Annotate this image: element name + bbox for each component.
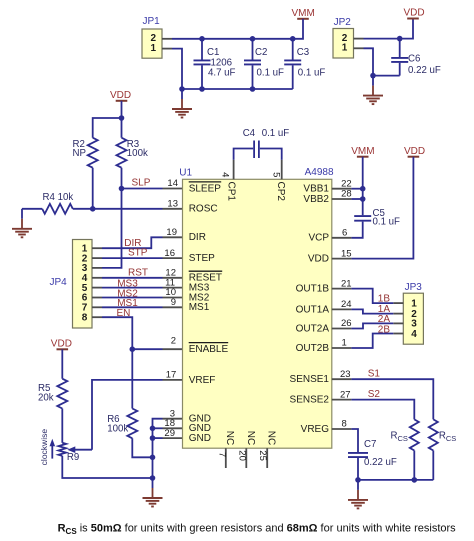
wire 2B net xyxy=(351,334,393,349)
wire VREG to C7 xyxy=(351,429,358,452)
wire SLP to SLEEP pin xyxy=(122,188,163,190)
wire VDD to pin 15 xyxy=(351,157,413,259)
pin name DIR xyxy=(189,232,206,243)
svg-text:clockwise: clockwise xyxy=(39,429,49,466)
pin U1.1 stub xyxy=(332,347,352,349)
svg-text:NC: NC xyxy=(224,431,235,445)
wire VBB2 xyxy=(351,198,362,200)
svg-text:6: 6 xyxy=(342,228,347,239)
junction VBB2 xyxy=(360,196,366,202)
wire 2A net xyxy=(351,323,393,328)
resistor R3 xyxy=(117,118,148,168)
junction GND row18 xyxy=(150,426,156,432)
ground symbol R4 xyxy=(12,209,32,238)
svg-text:14: 14 xyxy=(167,178,178,189)
resistor RCS right xyxy=(429,419,457,450)
wire EN net xyxy=(102,317,132,349)
svg-text:NP: NP xyxy=(73,148,86,159)
wire MS3 net xyxy=(102,287,163,289)
svg-text:0.1 uF: 0.1 uF xyxy=(373,216,401,227)
wire VDD drop to R2/R3 xyxy=(121,101,123,118)
capacitor C7 xyxy=(348,439,397,468)
ground symbol bottom right xyxy=(348,480,368,509)
svg-text:1: 1 xyxy=(342,338,347,349)
net label VDD top right xyxy=(404,8,425,19)
pin name ENABLE xyxy=(189,343,229,356)
net label VMM right xyxy=(351,146,374,157)
junction VDD/R2/R3 xyxy=(119,115,125,121)
svg-text:29: 29 xyxy=(164,428,175,439)
wire R9 wiper to VREF xyxy=(92,380,163,450)
capacitor C4 xyxy=(243,128,290,158)
pin name VREF xyxy=(189,375,216,386)
pin JP3.4 stub xyxy=(393,333,403,335)
svg-text:VMM: VMM xyxy=(351,146,374,157)
pin JP4.7 stub xyxy=(92,306,102,308)
pin JP4.2 stub xyxy=(92,257,102,259)
pin JP4.6 stub xyxy=(92,297,102,299)
svg-text:NC: NC xyxy=(266,431,277,445)
svg-text:0.1 uF: 0.1 uF xyxy=(298,67,326,78)
junction top rail C2 xyxy=(250,36,256,42)
junction JP2/C6/VDD node xyxy=(397,36,403,42)
pin U1.29 stub xyxy=(163,437,183,439)
svg-text:ROSC: ROSC xyxy=(189,204,218,215)
wire STP net xyxy=(102,257,163,259)
svg-text:MS1: MS1 xyxy=(189,302,210,313)
junction top rail C1 xyxy=(199,36,205,42)
svg-text:20: 20 xyxy=(236,450,247,461)
pin JP4.3 stub xyxy=(92,267,102,269)
ground symbol below JP2 xyxy=(363,76,383,105)
wire JP2 pin2 to VDD xyxy=(364,19,414,39)
junction GND row29 xyxy=(150,435,156,441)
wire RCS right to rail xyxy=(432,451,434,480)
wire EN node to ENABLE pin xyxy=(132,348,162,350)
svg-text:8: 8 xyxy=(342,419,347,430)
svg-text:28: 28 xyxy=(341,189,352,200)
svg-text:S1: S1 xyxy=(368,368,381,379)
svg-text:0.1 uF: 0.1 uF xyxy=(262,128,290,139)
resistor R5 xyxy=(38,379,67,409)
svg-text:VDD: VDD xyxy=(404,8,425,19)
svg-text:5: 5 xyxy=(271,172,282,177)
pin U1.15 stub xyxy=(332,258,352,260)
capacitor C6 xyxy=(391,39,441,77)
svg-text:OUT1A: OUT1A xyxy=(296,304,330,315)
wire bottom right rail xyxy=(358,479,433,481)
capacitor C3 xyxy=(284,39,325,89)
svg-text:VDD: VDD xyxy=(51,338,72,349)
svg-text:U1: U1 xyxy=(179,168,192,179)
wire JP1 pin1 to ground rail xyxy=(172,49,182,89)
pin name SLEEP xyxy=(189,182,222,195)
net label VDD left xyxy=(110,90,131,101)
pin JP4.8 stub xyxy=(92,316,102,318)
wire GND row 29 xyxy=(153,437,163,439)
junction R6 bottom xyxy=(150,455,156,461)
pin U1.6 stub xyxy=(332,237,352,239)
svg-text:SLEEP: SLEEP xyxy=(189,183,222,194)
resistor R4 xyxy=(42,192,73,214)
svg-text:C7: C7 xyxy=(364,439,376,450)
pin U1.16 stub xyxy=(163,257,183,259)
pin U1.3 stub xyxy=(163,418,183,420)
svg-text:ENABLE: ENABLE xyxy=(189,344,229,355)
junction VBB1 xyxy=(360,186,366,192)
resistor RCS left xyxy=(391,419,419,450)
svg-text:0.1 uF: 0.1 uF xyxy=(257,67,285,78)
pin U1.19 stub xyxy=(163,236,183,238)
wire MS1 net xyxy=(102,306,163,308)
capacitor C5 xyxy=(354,208,400,227)
pin U1.20 stub xyxy=(245,448,247,468)
svg-text:STP: STP xyxy=(128,248,148,259)
svg-text:VBB2: VBB2 xyxy=(303,194,329,205)
junction RCS left rail xyxy=(412,477,418,483)
svg-text:VDD: VDD xyxy=(308,254,329,265)
wire SLP node down to JP4 pin3 xyxy=(102,189,122,268)
svg-text:0.22 uF: 0.22 uF xyxy=(408,65,441,76)
junction bottom rail C1 xyxy=(199,86,205,92)
svg-text:VREF: VREF xyxy=(189,375,216,386)
svg-text:STEP: STEP xyxy=(189,253,215,264)
pin JP3.3 stub xyxy=(393,322,403,324)
svg-text:19: 19 xyxy=(166,227,177,238)
svg-text:7: 7 xyxy=(217,452,228,457)
svg-text:9: 9 xyxy=(171,297,176,308)
pin JP2.2 stub xyxy=(354,38,364,40)
pin name GND xyxy=(189,414,211,425)
svg-text:15: 15 xyxy=(341,248,352,259)
capacitor C1 xyxy=(194,39,236,89)
svg-text:R: R xyxy=(439,430,446,441)
wire ground rail under C1-C3 xyxy=(182,88,293,90)
svg-text:JP4: JP4 xyxy=(50,277,68,288)
pin JP3.1 stub xyxy=(393,302,403,304)
wire R3 bottom to SLP node xyxy=(121,168,123,189)
clockwise annotation xyxy=(39,429,55,466)
svg-text:16: 16 xyxy=(164,248,175,259)
svg-text:VMM: VMM xyxy=(292,8,315,19)
connector JP4 xyxy=(50,240,93,329)
svg-text:OUT1B: OUT1B xyxy=(296,284,330,295)
svg-text:DIR: DIR xyxy=(189,232,206,243)
svg-text:R: R xyxy=(391,430,398,441)
svg-text:VCP: VCP xyxy=(308,233,329,244)
pin U1.13 stub xyxy=(163,208,183,210)
svg-text:1: 1 xyxy=(411,298,417,309)
net label VDD right xyxy=(404,146,425,157)
connector JP2 xyxy=(333,17,354,58)
pin JP3.2 stub xyxy=(393,313,403,315)
junction JP2 pin1 ground node xyxy=(370,73,376,79)
wire C6 bottom to JP2 pin1 xyxy=(373,75,400,77)
net label VDD bottom left xyxy=(51,338,72,349)
wire R5 to R9 xyxy=(61,409,63,443)
wire DIR net xyxy=(102,237,163,248)
pin JP4.4 stub xyxy=(92,277,102,279)
svg-text:4.7 uF: 4.7 uF xyxy=(208,67,236,78)
trimmer R9 xyxy=(59,443,80,463)
svg-text:JP3: JP3 xyxy=(405,282,423,293)
pin JP2.1 stub xyxy=(354,47,364,49)
svg-text:13: 13 xyxy=(167,199,178,210)
pin name GND xyxy=(189,433,211,444)
junction bottom rail C2 xyxy=(250,86,256,92)
svg-text:EN: EN xyxy=(117,308,131,319)
pin U1.9 stub xyxy=(163,306,183,308)
svg-text:2B: 2B xyxy=(378,324,391,335)
wire RST net xyxy=(102,277,163,279)
svg-text:8: 8 xyxy=(82,312,88,323)
svg-text:4: 4 xyxy=(220,172,231,177)
wire CP1 to C4 xyxy=(234,149,254,160)
pin name MS1 xyxy=(189,302,210,313)
svg-text:R4 10k: R4 10k xyxy=(43,192,74,203)
svg-text:OUT2A: OUT2A xyxy=(296,323,330,334)
pin U1.28 stub xyxy=(332,198,352,200)
pin name ROSC xyxy=(189,204,218,215)
svg-text:1: 1 xyxy=(151,43,157,54)
ground symbol main xyxy=(143,478,163,507)
svg-text:23: 23 xyxy=(340,369,351,380)
wire VMM to VBB1/VBB2/C5 xyxy=(362,157,364,216)
svg-text:1: 1 xyxy=(342,43,348,54)
pin U1.12 stub xyxy=(163,277,183,279)
junction SLP node xyxy=(119,186,125,192)
svg-text:NC: NC xyxy=(245,431,256,445)
wire ground to R4 xyxy=(22,208,42,210)
svg-text:C4: C4 xyxy=(243,128,256,139)
svg-text:GND: GND xyxy=(189,433,211,444)
svg-text:0.22 uF: 0.22 uF xyxy=(364,457,397,468)
wire JP2 pin1 down xyxy=(364,48,374,75)
pin U1.17 stub xyxy=(163,379,183,381)
svg-text:17: 17 xyxy=(166,370,177,381)
wire 1A net xyxy=(351,309,393,313)
R9 wiper arrow xyxy=(67,446,92,453)
wire S2 net xyxy=(351,400,414,420)
pin name GND xyxy=(189,423,211,434)
svg-text:OUT2B: OUT2B xyxy=(296,343,330,354)
pin U1.18 stub xyxy=(163,427,183,429)
pin U1.11 stub xyxy=(163,287,183,289)
pin U1.7 stub xyxy=(225,448,227,468)
svg-text:RCS is 50mΩ for units with gre: RCS is 50mΩ for units with green resisto… xyxy=(58,523,457,536)
wire R2 bottom xyxy=(92,168,94,209)
svg-text:CS: CS xyxy=(398,434,408,443)
wire GND row 18 xyxy=(153,427,163,429)
svg-text:JP1: JP1 xyxy=(143,16,161,27)
svg-text:VREG: VREG xyxy=(301,424,330,435)
pin U1.8 stub xyxy=(332,428,352,430)
wire RCS left to rail xyxy=(413,451,415,480)
pin U1.26 stub xyxy=(332,328,352,330)
svg-text:C2: C2 xyxy=(255,47,267,58)
pin U1.2 stub xyxy=(163,348,183,350)
wire R9 bottom rail xyxy=(62,456,152,478)
pin name MS3 xyxy=(189,283,210,294)
svg-text:20k: 20k xyxy=(38,392,54,403)
junction EN/ENABLE/R6 xyxy=(130,346,136,352)
wire VMM drop xyxy=(293,19,303,39)
pin U1.14 stub xyxy=(163,188,183,190)
wire R4 to ROSC node xyxy=(73,208,93,210)
connector JP1 xyxy=(142,16,162,58)
junction left bottom rail xyxy=(150,475,156,481)
svg-text:26: 26 xyxy=(341,318,352,329)
pin JP4.1 stub xyxy=(92,247,102,249)
pin U1.25 stub xyxy=(266,448,268,468)
pin JP1.1 stub xyxy=(162,48,172,50)
resistor R2 xyxy=(73,138,98,168)
svg-text:27: 27 xyxy=(340,389,351,400)
pin name MS2 xyxy=(189,292,210,303)
wire VMM top rail xyxy=(172,38,293,40)
svg-text:VDD: VDD xyxy=(404,146,425,157)
op-amp U1 A4988 IC body xyxy=(179,167,334,448)
pin U1.23 stub xyxy=(332,378,352,380)
wire C4 to CP2 xyxy=(260,149,282,160)
svg-text:4: 4 xyxy=(411,329,417,340)
svg-text:1B: 1B xyxy=(378,294,391,305)
pin JP4.5 stub xyxy=(92,287,102,289)
wire MS2 net xyxy=(102,297,163,299)
svg-text:25: 25 xyxy=(257,450,268,461)
svg-text:CP1: CP1 xyxy=(226,182,237,202)
svg-text:2: 2 xyxy=(171,336,176,347)
svg-text:A4988: A4988 xyxy=(305,167,334,178)
wire VDD to R5 xyxy=(61,349,63,378)
wire GND pins vertical xyxy=(153,419,163,478)
pin name RESET xyxy=(189,271,223,284)
pin JP1.2 stub xyxy=(162,38,172,40)
junction C7 ground xyxy=(355,477,361,483)
pin U1.21 stub xyxy=(332,288,352,290)
svg-text:CP2: CP2 xyxy=(275,182,286,202)
svg-text:JP2: JP2 xyxy=(334,17,352,28)
net label VMM xyxy=(292,8,315,19)
svg-text:VDD: VDD xyxy=(110,90,131,101)
capacitor C2 xyxy=(244,39,284,89)
wire R6 bottom to gnd line xyxy=(132,438,152,457)
svg-text:CS: CS xyxy=(446,434,456,443)
svg-text:C3: C3 xyxy=(297,47,309,58)
svg-text:SENSE1: SENSE1 xyxy=(290,374,330,385)
resistor R6 xyxy=(107,349,137,438)
svg-text:SENSE2: SENSE2 xyxy=(290,395,330,406)
junction ROSC node xyxy=(90,206,96,212)
svg-text:21: 21 xyxy=(341,278,352,289)
connector JP3 xyxy=(403,282,423,344)
svg-text:100k: 100k xyxy=(127,148,148,159)
wire S1 net xyxy=(351,379,433,419)
wire C7 bottom xyxy=(357,458,359,480)
svg-text:C6: C6 xyxy=(408,54,420,65)
pin U1.10 stub xyxy=(163,297,183,299)
ground symbol below C rail xyxy=(172,89,192,118)
pin name STEP xyxy=(189,253,215,264)
wire branch to R2 xyxy=(93,118,122,138)
svg-text:R9: R9 xyxy=(67,452,79,463)
svg-text:SLP: SLP xyxy=(132,178,151,189)
pin U1.27 stub xyxy=(332,399,352,401)
wire C5 to VCP xyxy=(351,222,362,238)
pin U1.24 stub xyxy=(332,308,352,310)
pin U1.5 stub xyxy=(281,160,283,180)
svg-text:S2: S2 xyxy=(368,389,381,400)
pin U1.4 stub xyxy=(233,160,235,180)
wire VBB1 xyxy=(351,188,362,190)
svg-text:RST: RST xyxy=(128,267,148,278)
pin U1.22 stub xyxy=(332,188,352,190)
wire 1B net xyxy=(351,289,393,304)
junction bottom rail ground tap xyxy=(179,86,185,92)
svg-text:24: 24 xyxy=(341,299,352,310)
svg-text:100k: 100k xyxy=(107,424,128,435)
junction top rail C3/VMM xyxy=(290,36,296,42)
wire ROSC node to pin 13 xyxy=(93,208,163,210)
